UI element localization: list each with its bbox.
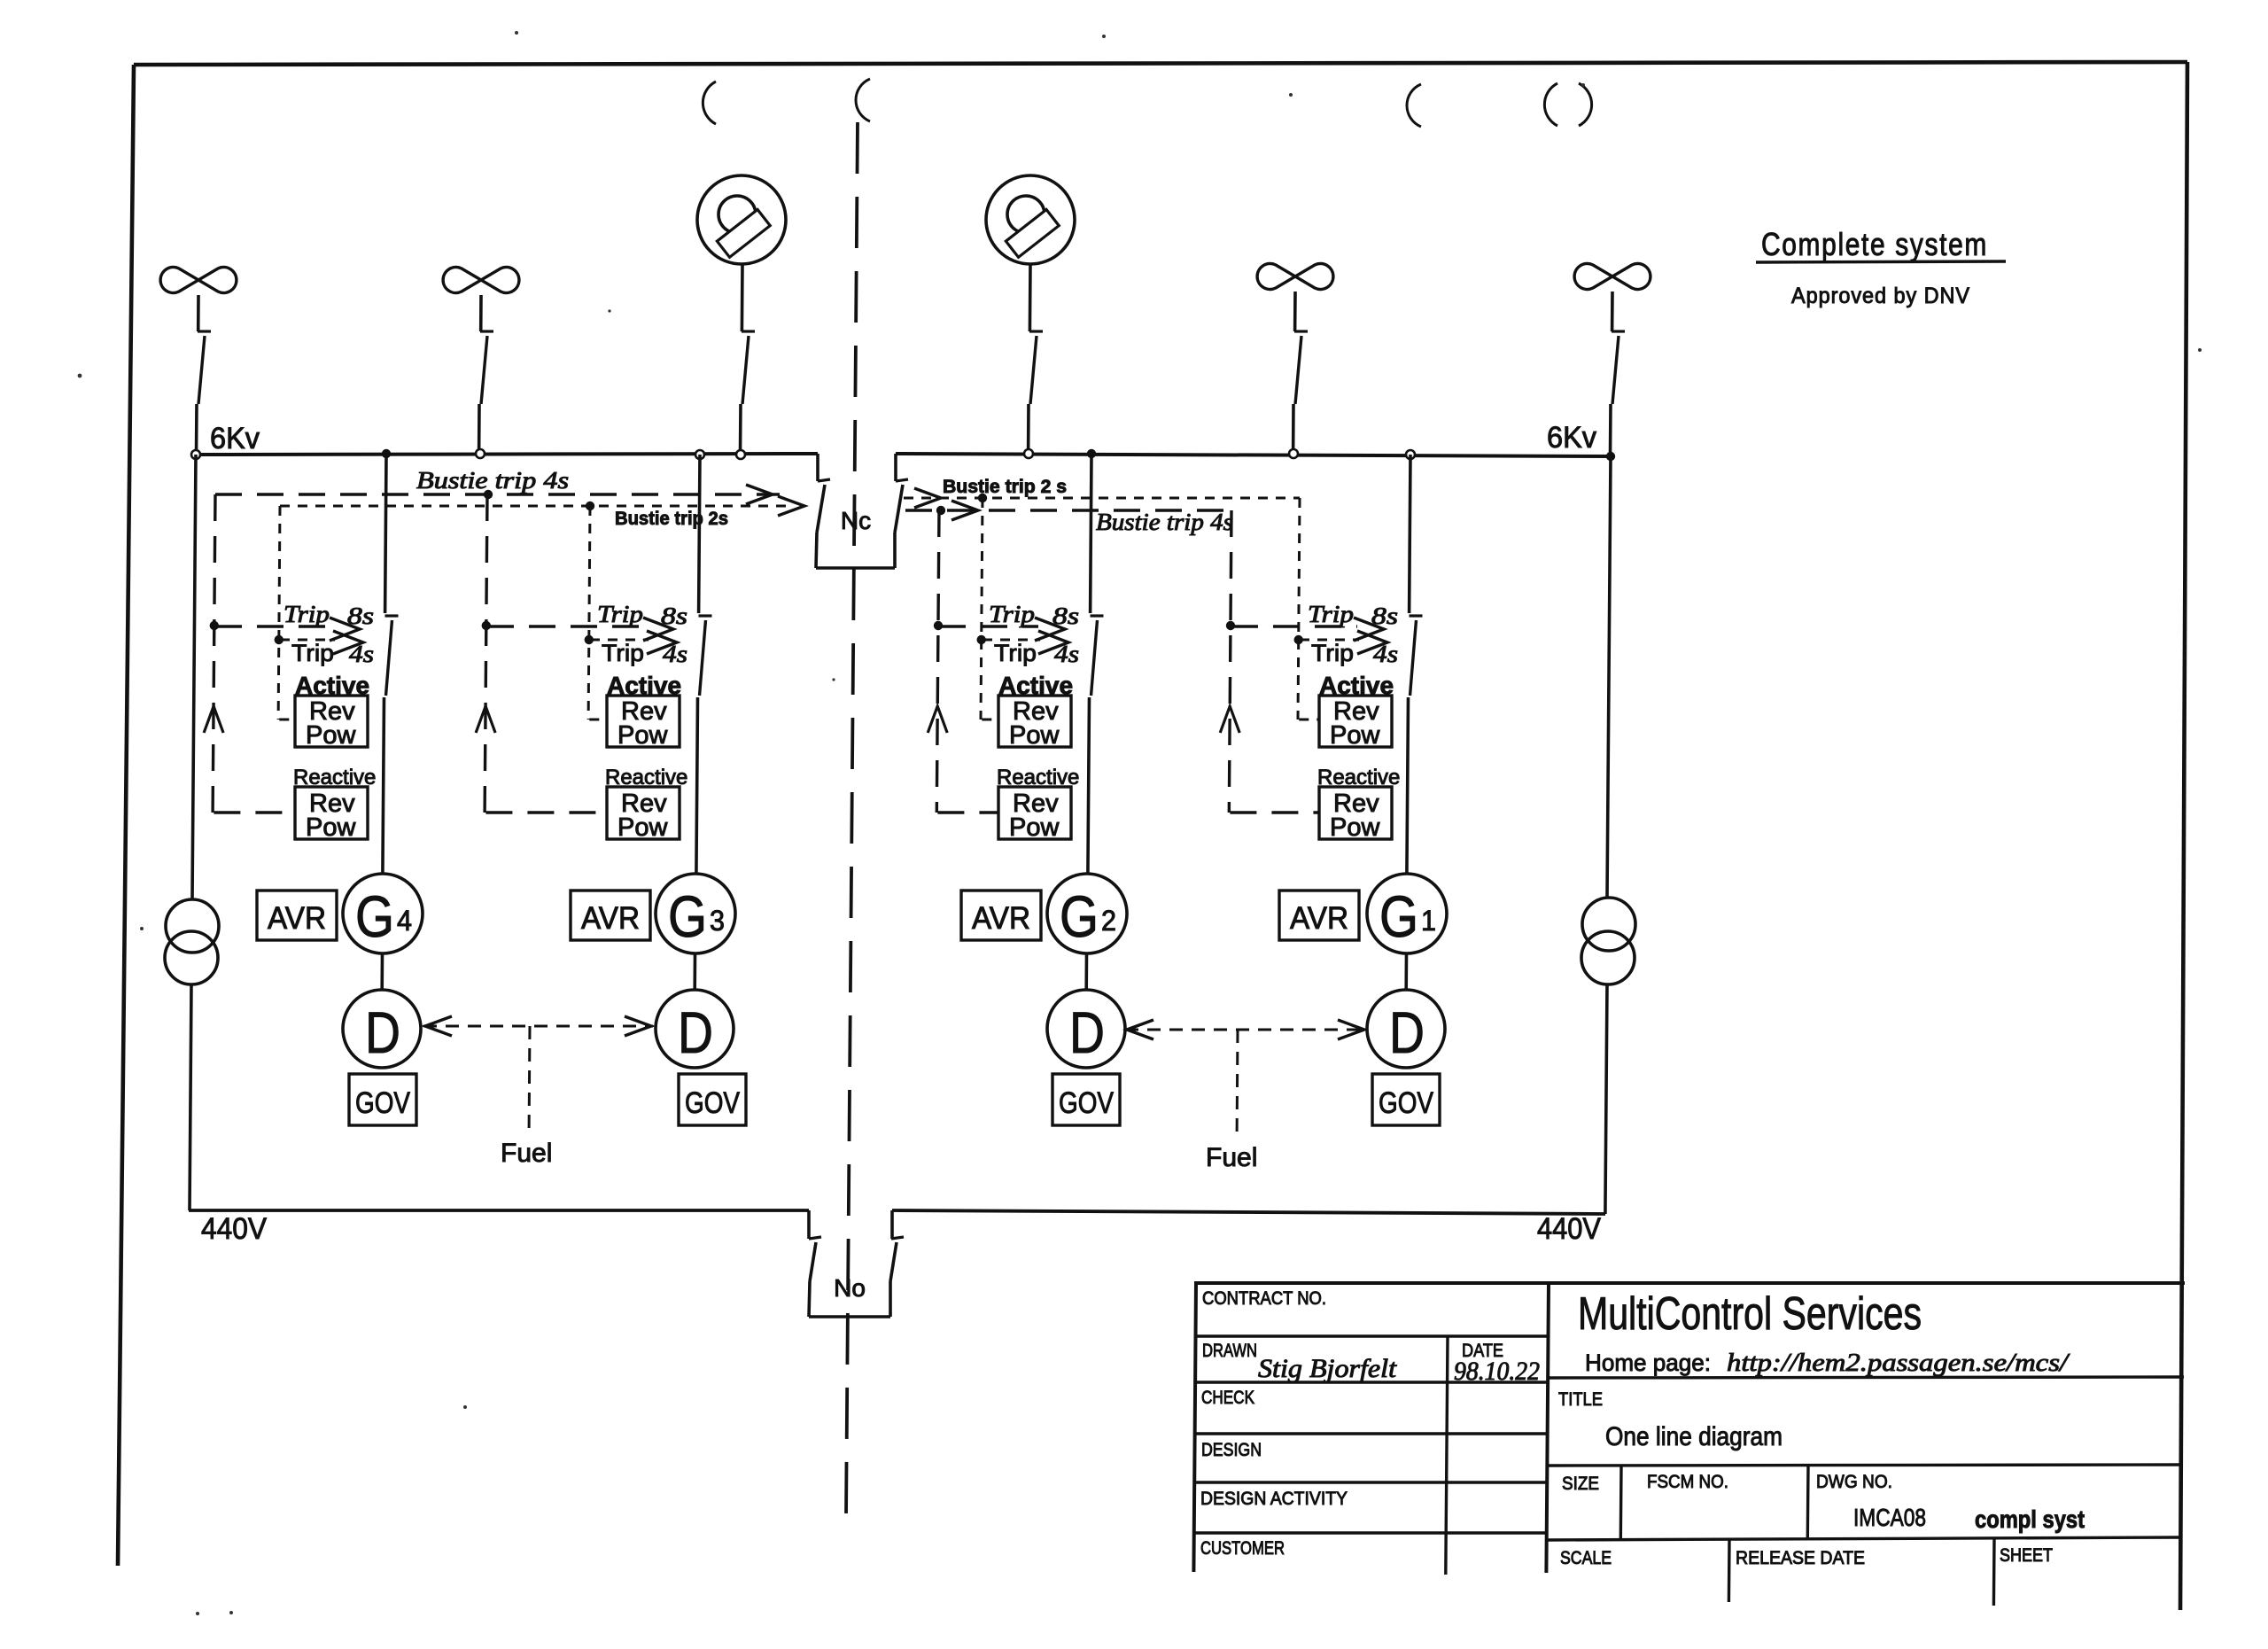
bus-tie breaker No (440V)	[809, 1210, 904, 1317]
G3 relays wire trip-4s vertical to Active box	[589, 719, 607, 721]
stern thruster propeller P4	[1574, 264, 1651, 290]
wire P1 to breaker	[197, 295, 200, 331]
G3 relays label Active	[607, 672, 681, 699]
propulsion motor M1	[697, 175, 786, 264]
wire bustie trip 4s line (port, long dash)	[215, 493, 780, 495]
value compl syst	[1975, 1505, 2085, 1533]
title block outline	[1193, 1283, 2185, 1573]
node M1 feeder junction	[736, 450, 745, 459]
G1 relays reactive reverse power relay box	[1319, 787, 1392, 842]
generator G1	[1367, 874, 1447, 953]
G2 relays arrow trip 4s	[1038, 631, 1068, 654]
svg-text:CONTRACT NO.: CONTRACT NO.	[1202, 1288, 1326, 1309]
G2 relays label Trip 8s	[989, 601, 1079, 629]
arrow bustie trip 4s from Nc	[951, 501, 978, 520]
breaker G1 feeder	[1410, 616, 1423, 696]
breaker G3 feeder	[699, 616, 712, 696]
G1 relays trip-8s dashed vertical	[1229, 510, 1231, 813]
svg-text:4s: 4s	[663, 641, 687, 667]
bow thruster propeller P2	[443, 268, 519, 293]
breaker P2 feeder	[480, 331, 493, 404]
shaft wire G2 to diesel	[1084, 953, 1088, 990]
label DRAWN	[1202, 1341, 1257, 1361]
wire bustie trip 2 s line (stbd, short dash)	[904, 497, 1300, 500]
svg-text:TITLE: TITLE	[1558, 1389, 1603, 1410]
svg-text:Bustie trip 4s: Bustie trip 4s	[416, 467, 569, 494]
node P2 feeder junction	[476, 449, 485, 458]
G2 relays trip-4s dashed vertical	[981, 498, 983, 719]
transformer T2	[1581, 898, 1635, 984]
G1 relays wire trip-8s vertical to Reactive box	[1230, 811, 1319, 813]
svg-text:Trip: Trip	[989, 601, 1035, 627]
G2 relays node trip-4s tap	[977, 635, 986, 644]
arrow bustie trip 4s to Nc	[746, 485, 773, 504]
G4 relays reactive reverse power relay box	[295, 787, 368, 842]
AVR box for G2	[961, 891, 1041, 940]
SIZE FSCM DWG dividers	[1620, 1466, 1808, 1539]
label 440V right	[1537, 1212, 1601, 1246]
node on 2s line at G3 column	[586, 502, 594, 510]
label SHEET	[2000, 1545, 2053, 1566]
arrow fuel into D1	[1338, 1020, 1364, 1039]
node on 4s line at G3 column	[484, 490, 493, 499]
wire T2 to 440V bus	[1605, 984, 1607, 1214]
G1 relays arrow trip 4s	[1357, 631, 1387, 654]
G4 relays up arrow on trip-8s vertical	[204, 706, 223, 733]
AVR box for G3	[571, 891, 650, 940]
G3 relays label Trip 4s	[602, 640, 687, 667]
svg-text:D: D	[1069, 1000, 1105, 1065]
svg-text:No: No	[834, 1274, 866, 1302]
diesel engine D of G4	[343, 990, 421, 1068]
svg-text:DESIGN ACTIVITY: DESIGN ACTIVITY	[1200, 1489, 1348, 1509]
svg-text:4s: 4s	[1054, 641, 1079, 667]
label CONTRACT NO.	[1202, 1288, 1326, 1309]
scan artifact arc 1	[703, 82, 716, 124]
G2 relays trip-8s wire to breaker	[939, 625, 1038, 627]
svg-text:AVR: AVR	[1290, 901, 1348, 936]
wire 6kV bus to G3 breaker	[699, 455, 700, 613]
svg-text:Approved by DNV: Approved by DNV	[1791, 284, 1970, 308]
label No	[834, 1274, 866, 1302]
440V bus port	[189, 1209, 809, 1212]
G2 relays wire trip-8s vertical to Reactive box	[937, 811, 998, 813]
G3 relays trip-4s wire to breaker	[590, 639, 649, 642]
shaft wire G1 to diesel	[1404, 953, 1408, 990]
bow thruster propeller P3	[1257, 264, 1333, 290]
node M2 feeder junction	[1024, 449, 1033, 458]
svg-text:4s: 4s	[1373, 641, 1398, 667]
svg-text:Complete system: Complete system	[1761, 226, 1988, 262]
svg-text:4s: 4s	[349, 641, 374, 667]
label Fuel (stbd)	[1206, 1143, 1257, 1172]
svg-text:8s: 8s	[347, 603, 374, 629]
centerline between port and starboard systems	[846, 122, 858, 1517]
label Bustie trip 4s (port)	[416, 467, 569, 494]
svg-text:Trip: Trip	[602, 640, 644, 666]
note: Approved by DNV	[1791, 284, 1970, 308]
svg-text:Trip: Trip	[283, 601, 330, 627]
node G1 feeder junction	[1406, 450, 1415, 459]
scan artifact arc 3	[1407, 84, 1421, 127]
svg-text:2: 2	[1101, 905, 1116, 937]
label Bustie trip 4s (stbd)	[1096, 509, 1233, 535]
svg-text:IMCA08: IMCA08	[1853, 1504, 1926, 1531]
arrow fuel into D3	[625, 1016, 651, 1036]
svg-text:SHEET: SHEET	[2000, 1545, 2053, 1566]
svg-text:Nc: Nc	[841, 507, 871, 534]
svg-text:GOV: GOV	[355, 1086, 410, 1120]
G4 relays label Trip 8s	[283, 601, 374, 629]
G3 relays label Trip 8s	[597, 601, 687, 629]
svg-text:8s: 8s	[1371, 603, 1398, 629]
G4 relays trip-4s dashed vertical	[278, 506, 280, 719]
fuel control dashed wire G2-G1	[1125, 1029, 1366, 1031]
svg-text:Home page:: Home page:	[1585, 1350, 1711, 1376]
svg-text:Trip: Trip	[1311, 640, 1354, 666]
svg-text:Pow: Pow	[1009, 721, 1060, 750]
G4 relays label Active	[295, 672, 369, 699]
wire 6kV bus B down to transformer T2	[1607, 456, 1611, 898]
node bus B right end	[1606, 452, 1615, 461]
svg-text:Fuel: Fuel	[1206, 1143, 1257, 1172]
wire T1 to 440V bus	[190, 984, 191, 1210]
G4 relays wire trip-4s vertical to Active box	[279, 719, 295, 721]
G2 relays trip-8s dashed vertical	[936, 510, 939, 813]
svg-text:8s: 8s	[1052, 603, 1079, 629]
fuel control dashed wire G4-G3	[423, 1025, 653, 1028]
label Bustie trip 2 s (stbd)	[943, 477, 1067, 497]
svg-text:Pow: Pow	[1330, 813, 1380, 842]
label DESIGN ACTIVITY	[1200, 1489, 1348, 1509]
label CUSTOMER	[1200, 1538, 1285, 1559]
AVR box for G1	[1279, 891, 1359, 940]
GOV box for G4	[349, 1074, 416, 1125]
wire breaker to generator G3	[696, 697, 698, 874]
wire M1 to breaker	[741, 264, 744, 331]
G1 relays active reverse power relay box	[1319, 696, 1392, 750]
G2 relays label Active	[998, 672, 1073, 699]
svg-text:Trip: Trip	[1308, 601, 1354, 627]
wire breaker to 6kV bus B	[1292, 404, 1295, 454]
arrow bustie trip 2 s from Nc	[914, 488, 941, 508]
G3 relays trip-8s dashed vertical	[485, 494, 487, 813]
wire 6kV bus A down to transformer T1	[192, 455, 196, 899]
wire breaker to 6kV bus A	[739, 404, 742, 455]
label 6Kv right	[1547, 421, 1596, 455]
title block right row lines	[1547, 1377, 2184, 1540]
svg-text:Pow: Pow	[306, 813, 356, 842]
svg-text:DWG NO.: DWG NO.	[1816, 1472, 1892, 1492]
440V bus starboard	[892, 1210, 1605, 1214]
G4 relays trip-8s wire to breaker	[215, 625, 333, 627]
G1 relays trip-4s wire to breaker	[1300, 639, 1359, 642]
svg-text:http://hem2.passagen.se/mcs/: http://hem2.passagen.se/mcs/	[1727, 1349, 2070, 1377]
svg-text:G: G	[355, 883, 394, 949]
bus-tie breaker Nc	[816, 454, 908, 568]
svg-text:GOV: GOV	[685, 1086, 740, 1120]
svg-text:G: G	[668, 883, 707, 949]
GOV box for G1	[1372, 1074, 1440, 1125]
svg-text:8s: 8s	[661, 603, 687, 629]
node on 2s line at G2 column	[978, 494, 987, 502]
G4 relays arrow trip 8s	[330, 618, 360, 641]
drawing title One line diagram	[1605, 1422, 1783, 1451]
node G3 feeder junction	[695, 450, 704, 459]
GOV box for G3	[679, 1074, 746, 1125]
value IMCA08	[1853, 1504, 1926, 1531]
title block DATE column divider	[1446, 1336, 1448, 1575]
generator G2	[1047, 874, 1127, 953]
label CHECK	[1201, 1388, 1254, 1408]
G1 relays wire trip-4s vertical to Active box	[1299, 719, 1319, 721]
svg-text:Pow: Pow	[617, 813, 668, 842]
shaft wire G3 to diesel	[693, 953, 696, 990]
arrow fuel into D2	[1127, 1020, 1153, 1039]
label Nc	[841, 507, 871, 534]
G2 relays arrow trip 8s	[1035, 618, 1065, 641]
svg-text:440V: 440V	[201, 1212, 267, 1246]
G2 relays wire trip-4s vertical to Active box	[982, 719, 998, 721]
SCALE row dividers	[1728, 1539, 1994, 1606]
G2 relays label Reactive	[997, 766, 1079, 789]
svg-text:D: D	[365, 1000, 400, 1065]
transformer T1	[165, 899, 219, 984]
svg-text:GOV: GOV	[1379, 1086, 1433, 1120]
wire breaker to 6kV bus B end	[1609, 404, 1612, 456]
breaker P1 feeder	[198, 331, 211, 404]
G1 relays node trip-8s tap	[1226, 621, 1235, 630]
svg-text:AVR: AVR	[581, 901, 640, 936]
breaker G2 feeder	[1091, 616, 1104, 696]
G1 relays label Trip 8s	[1308, 601, 1398, 629]
label RELEASE DATE	[1736, 1548, 1865, 1568]
svg-text:G: G	[1060, 883, 1099, 949]
label SCALE	[1560, 1548, 1612, 1568]
svg-text:G: G	[1379, 883, 1418, 949]
generator G3	[656, 874, 735, 953]
fuel dashed drop (port)	[528, 1026, 532, 1129]
wire breaker to generator G1	[1407, 697, 1409, 874]
G3 relays up arrow on trip-8s vertical	[476, 706, 495, 733]
G4 relays node trip-4s tap	[275, 635, 283, 644]
G3 relays arrow trip 4s	[647, 631, 677, 654]
svg-text:AVR: AVR	[972, 901, 1030, 936]
wire breaker to 6kV bus A	[478, 404, 481, 454]
svg-text:4: 4	[397, 905, 412, 937]
label 440V left	[201, 1212, 267, 1246]
scan artifact arc pair 4	[1544, 83, 1591, 126]
svg-text:Bustie trip 4s: Bustie trip 4s	[1096, 509, 1233, 535]
G1 relays arrow trip 8s	[1354, 618, 1384, 641]
G4 relays node trip-8s tap	[210, 621, 219, 630]
arrow bustie trip 2s to Nc	[778, 496, 804, 516]
wire bustie trip 4s line (stbd, long dash)	[905, 509, 1231, 511]
G4 relays arrow trip 4s	[333, 631, 363, 654]
diesel engine D of G2	[1047, 990, 1125, 1068]
label Fuel (port)	[501, 1139, 552, 1168]
svg-text:6Kv: 6Kv	[1547, 421, 1596, 455]
wire breaker to generator G2	[1088, 697, 1090, 874]
generator G4	[343, 874, 423, 953]
svg-text:GOV: GOV	[1059, 1086, 1114, 1120]
svg-text:Stig Bjorfelt: Stig Bjorfelt	[1258, 1354, 1397, 1383]
svg-text:Pow: Pow	[617, 721, 668, 750]
svg-text:MultiControl Services: MultiControl Services	[1578, 1288, 1922, 1340]
wire P3 to breaker	[1293, 292, 1297, 331]
svg-text:CHECK: CHECK	[1201, 1388, 1254, 1408]
G1 relays node trip-4s tap	[1294, 635, 1303, 644]
G1 relays label Trip 4s	[1311, 640, 1398, 667]
G2 relays label Trip 4s	[994, 640, 1079, 667]
label FSCM NO.	[1647, 1472, 1728, 1492]
G4 relays label Trip 4s	[291, 640, 374, 667]
svg-text:D: D	[1389, 1000, 1425, 1065]
G1 relays label Active	[1319, 672, 1394, 699]
value 98.10.22	[1454, 1357, 1540, 1386]
label DWG NO.	[1816, 1472, 1892, 1492]
G4 relays active reverse power relay box	[295, 696, 368, 750]
G4 relays wire trip-8s vertical to Reactive box	[214, 811, 295, 813]
svg-text:440V: 440V	[1537, 1212, 1601, 1246]
G1 relays up arrow on trip-8s vertical	[1220, 706, 1239, 733]
breaker P3 feeder	[1294, 331, 1308, 404]
G3 relays label Reactive	[605, 766, 687, 789]
title block row lines (left)	[1193, 1336, 1548, 1533]
label SIZE	[1562, 1474, 1599, 1494]
svg-text:Pow: Pow	[1330, 721, 1380, 750]
AVR box for G4	[257, 891, 337, 940]
label DESIGN	[1201, 1440, 1262, 1460]
G4 relays trip-4s wire to breaker	[280, 639, 335, 642]
diesel engine D of G1	[1367, 990, 1445, 1068]
svg-text:Pow: Pow	[306, 721, 356, 750]
svg-text:Pow: Pow	[1009, 813, 1060, 842]
shaft wire G4 to diesel	[380, 953, 384, 990]
G2 relays active reverse power relay box	[998, 696, 1071, 750]
svg-text:CUSTOMER: CUSTOMER	[1200, 1538, 1285, 1559]
label TITLE	[1558, 1389, 1603, 1410]
wire breaker to generator G4	[383, 697, 384, 874]
breaker M2 feeder	[1029, 331, 1043, 404]
propulsion motor M2	[986, 175, 1075, 264]
wire bustie trip 2s line (port, short dash)	[280, 505, 790, 508]
G3 relays node trip-4s tap	[585, 635, 594, 644]
svg-text:Bustie trip 2s: Bustie trip 2s	[615, 509, 728, 529]
svg-text:SIZE: SIZE	[1562, 1474, 1599, 1494]
G1 relays trip-8s wire to breaker	[1231, 625, 1357, 627]
bow thruster propeller P1	[160, 267, 237, 292]
value Stig Bjorfelt	[1258, 1354, 1397, 1383]
svg-text:3: 3	[710, 905, 725, 937]
wire 6kV bus to G4 breaker	[385, 455, 386, 613]
G3 relays trip-4s dashed vertical	[588, 506, 590, 719]
node on 4s line at G2 column	[936, 506, 945, 515]
svg-text:One line diagram: One line diagram	[1605, 1422, 1783, 1451]
svg-text:1: 1	[1421, 905, 1436, 937]
node G2 feeder junction	[1087, 449, 1096, 458]
wire 6kV bus to G1 breaker	[1410, 455, 1410, 613]
svg-text:Bustie trip 2 s: Bustie trip 2 s	[943, 477, 1067, 497]
company name MultiControl Services	[1578, 1288, 1922, 1340]
svg-text:AVR: AVR	[268, 901, 326, 936]
label 6Kv left	[210, 422, 260, 455]
G3 relays arrow trip 8s	[643, 618, 673, 641]
G3 relays active reverse power relay box	[607, 696, 680, 750]
G1 relays label Reactive	[1317, 766, 1400, 789]
GOV box for G2	[1052, 1074, 1120, 1125]
svg-text:6Kv: 6Kv	[210, 422, 260, 455]
svg-text:Trip: Trip	[994, 640, 1037, 666]
G3 relays wire trip-8s vertical to Reactive box	[485, 811, 607, 813]
wire 6kV bus to G2 breaker	[1091, 455, 1091, 613]
breaker P4 feeder	[1612, 331, 1625, 404]
svg-text:DRAWN: DRAWN	[1202, 1341, 1257, 1361]
svg-text:SCALE: SCALE	[1560, 1548, 1612, 1568]
scan artifact arc 2	[856, 79, 870, 121]
node P3 feeder junction	[1289, 449, 1298, 458]
G3 relays trip-8s wire to breaker	[487, 625, 647, 627]
note: Complete system	[1756, 226, 2006, 262]
label DATE	[1462, 1341, 1503, 1361]
diesel engine D of G3	[656, 990, 734, 1068]
svg-text:RELEASE DATE: RELEASE DATE	[1736, 1548, 1865, 1568]
wire breaker to 6kV bus B	[1027, 404, 1030, 454]
arrow fuel into D4	[425, 1016, 452, 1036]
6kV bus B (starboard)	[896, 454, 1611, 456]
home page line	[1585, 1349, 2070, 1377]
G2 relays node trip-8s tap	[934, 621, 943, 630]
svg-text:DESIGN: DESIGN	[1201, 1440, 1262, 1460]
svg-text:Trip: Trip	[291, 640, 334, 666]
wire M2 to breaker	[1029, 264, 1032, 331]
G4 relays label Reactive	[293, 766, 376, 789]
6kV bus A (port)	[196, 454, 818, 455]
svg-text:FSCM NO.: FSCM NO.	[1647, 1472, 1728, 1492]
G4 relays trip-8s dashed vertical	[213, 494, 215, 813]
svg-text:Trip: Trip	[597, 601, 643, 627]
label Bustie trip 2s (port)	[615, 509, 728, 529]
G1 relays trip-4s dashed vertical	[1298, 498, 1300, 719]
wire P4 to breaker	[1611, 292, 1614, 331]
breaker M1 feeder	[742, 331, 755, 404]
node bus A left end	[191, 450, 200, 459]
breaker G4 feeder	[385, 616, 399, 696]
wire breaker to 6kV bus A	[195, 404, 198, 455]
G2 relays reactive reverse power relay box	[998, 787, 1071, 842]
G2 relays trip-4s wire to breaker	[983, 639, 1040, 642]
fuel dashed drop (stbd)	[1236, 1030, 1239, 1133]
svg-text:98.10.22: 98.10.22	[1454, 1357, 1540, 1386]
wire P2 to breaker	[479, 295, 483, 331]
svg-text:compl syst: compl syst	[1975, 1505, 2085, 1533]
G2 relays up arrow on trip-8s vertical	[928, 706, 947, 733]
G3 relays reactive reverse power relay box	[607, 787, 680, 842]
svg-text:Fuel: Fuel	[501, 1139, 552, 1168]
node G4 feeder junction	[382, 449, 391, 458]
svg-text:D: D	[678, 1000, 713, 1065]
G3 relays node trip-8s tap	[482, 621, 491, 630]
